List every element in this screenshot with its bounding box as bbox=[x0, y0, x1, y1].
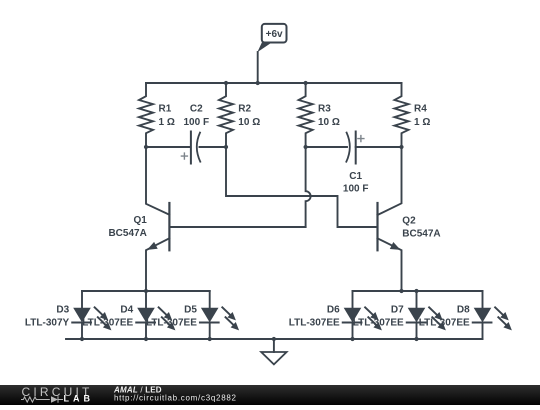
svg-text:D7: D7 bbox=[391, 305, 404, 316]
svg-text:+6v: +6v bbox=[266, 29, 283, 40]
svg-text:LTL-307EE: LTL-307EE bbox=[289, 318, 340, 329]
svg-text:http://circuitlab.com/c3q2882: http://circuitlab.com/c3q2882 bbox=[114, 394, 237, 403]
svg-text:Q2: Q2 bbox=[402, 216, 416, 227]
svg-text:C2: C2 bbox=[190, 104, 203, 115]
svg-text:R3: R3 bbox=[318, 104, 331, 115]
svg-text:100 F: 100 F bbox=[343, 184, 369, 195]
svg-text:1 Ω: 1 Ω bbox=[414, 117, 430, 128]
svg-text:D3: D3 bbox=[56, 305, 69, 316]
svg-text:R1: R1 bbox=[159, 104, 172, 115]
svg-text:C1: C1 bbox=[349, 171, 362, 182]
svg-text:R2: R2 bbox=[238, 104, 251, 115]
svg-text:10 Ω: 10 Ω bbox=[238, 117, 260, 128]
svg-text:LAB: LAB bbox=[64, 394, 95, 404]
svg-text:1 Ω: 1 Ω bbox=[159, 117, 175, 128]
svg-text:LTL-307EE: LTL-307EE bbox=[419, 318, 470, 329]
svg-text:Q1: Q1 bbox=[133, 215, 147, 226]
svg-text:D6: D6 bbox=[327, 305, 340, 316]
svg-text:R4: R4 bbox=[414, 104, 427, 115]
svg-text:LTL-307Y: LTL-307Y bbox=[25, 318, 70, 329]
svg-text:LTL-307EE: LTL-307EE bbox=[353, 318, 404, 329]
svg-text:D8: D8 bbox=[457, 305, 470, 316]
svg-text:LTL-307EE: LTL-307EE bbox=[146, 318, 197, 329]
svg-text:BC547A: BC547A bbox=[108, 228, 146, 239]
svg-text:D4: D4 bbox=[120, 305, 133, 316]
svg-text:100 F: 100 F bbox=[184, 117, 210, 128]
svg-text:BC547A: BC547A bbox=[402, 229, 440, 240]
svg-text:D5: D5 bbox=[184, 305, 197, 316]
svg-text:10 Ω: 10 Ω bbox=[318, 117, 340, 128]
svg-text:LTL-307EE: LTL-307EE bbox=[82, 318, 133, 329]
